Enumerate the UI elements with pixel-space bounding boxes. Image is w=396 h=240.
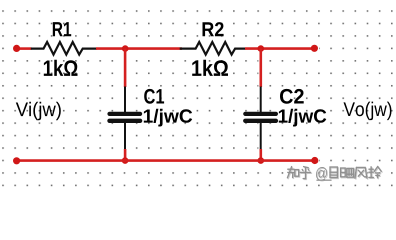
junction: C1 at bottom rail [122, 157, 129, 164]
capacitor C2 [245, 87, 276, 150]
terminal: output (top right) [311, 45, 318, 52]
wire: C1 to bottom rail [124, 149, 127, 161]
value 1kΩ (R1) [44, 60, 78, 76]
junction: node B (top of C2) [258, 45, 265, 52]
junction: node A (top of C1) [122, 45, 129, 52]
node label Vi(jw) [16, 102, 61, 120]
terminal: bottom left [13, 157, 20, 164]
label R1 [53, 22, 71, 36]
node label Vo(jw) [344, 102, 392, 121]
junction: C2 at bottom rail [258, 157, 265, 164]
value 1kΩ (R2) [192, 60, 228, 76]
wire: node B down to C2 [259, 49, 262, 87]
resistor R2 [180, 42, 246, 55]
wire: R2 to node B [245, 47, 262, 50]
resistor R1 [31, 42, 97, 55]
capacitor C1 [110, 87, 141, 150]
value 1/jwC (C1) [144, 109, 192, 127]
label C2 [280, 89, 304, 104]
terminal: input (top left) [13, 45, 20, 52]
watermark [288, 167, 382, 181]
wire: C2 to bottom rail [259, 149, 262, 161]
wire: node A down to C1 [124, 49, 127, 87]
wire: node B to output terminal [261, 47, 315, 50]
label R2 [203, 22, 224, 36]
wire: input terminal to R1 [17, 47, 32, 50]
wire: R1 to node A [96, 47, 182, 50]
wire: bottom rail [17, 159, 315, 162]
label C1 [144, 89, 164, 104]
value 1/jwC (C2) [279, 109, 327, 127]
terminal: bottom right [311, 157, 318, 164]
